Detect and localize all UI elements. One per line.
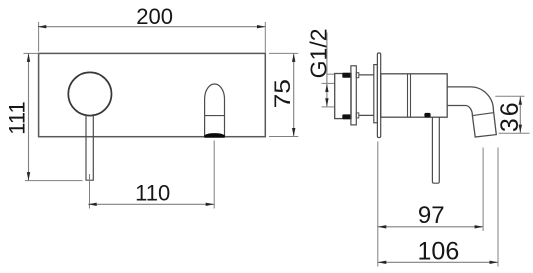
locknut top — [342, 73, 351, 78]
svg-text:106: 106 — [418, 238, 460, 266]
handle rosette circle — [68, 72, 111, 115]
bracket bump bottom — [356, 113, 359, 118]
mounting bracket bar — [351, 66, 356, 125]
dimension 36 — [495, 96, 529, 133]
bracket bump top — [356, 73, 359, 78]
svg-text:G1/2: G1/2 — [305, 28, 331, 78]
label G1/2 — [305, 28, 331, 78]
connecting pipe — [359, 75, 374, 116]
locknut bottom — [342, 114, 351, 119]
wall plate side view — [377, 53, 380, 138]
dimension 110 — [88, 141, 214, 209]
svg-text:110: 110 — [135, 180, 170, 205]
dimension 106 — [378, 238, 498, 266]
svg-text:36: 36 — [496, 100, 524, 132]
aerator front view — [205, 134, 225, 138]
spout side view — [447, 87, 496, 137]
flange disc side view — [374, 65, 378, 123]
dimension 75 — [269, 53, 298, 136]
extension line spout tip — [482, 148, 484, 232]
extension line wall — [377, 142, 379, 267]
mixer body side view — [381, 74, 448, 117]
wall plate front view — [39, 53, 266, 136]
svg-text:97: 97 — [418, 202, 445, 229]
dimension 200 — [38, 4, 266, 53]
handle stem front view — [86, 114, 93, 180]
spout front view — [205, 84, 225, 137]
extension line spout outer — [497, 148, 499, 267]
dimension 97 — [378, 202, 483, 229]
svg-text:75: 75 — [271, 79, 295, 108]
G1/2 nipple — [335, 74, 351, 119]
handle lever side view — [432, 117, 439, 183]
svg-text:200: 200 — [136, 4, 173, 29]
dimension 111 — [5, 53, 83, 180]
dimension G1/2 thread — [322, 33, 335, 107]
svg-text:111: 111 — [5, 101, 30, 134]
set screw — [424, 113, 430, 118]
